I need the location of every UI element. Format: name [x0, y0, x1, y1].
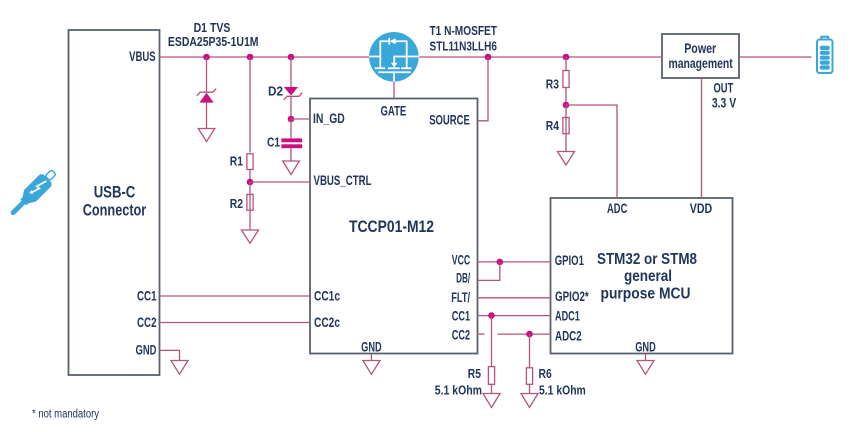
- wire R2 to ground: [249, 182, 251, 230]
- svg-text:CC2c: CC2c: [314, 314, 340, 330]
- resistor R1: [247, 154, 253, 170]
- wire VBUS to D2: [290, 57, 292, 87]
- USB-C plug icon: [7, 166, 59, 218]
- transistor T1 N-MOSFET: [369, 32, 419, 82]
- Power management box: [662, 34, 739, 78]
- wire D2 to node: [290, 96, 292, 119]
- ground below C1: [283, 161, 300, 175]
- svg-text:T1 N-MOSFET: T1 N-MOSFET: [430, 23, 498, 38]
- svg-text:FLT/: FLT/: [451, 289, 470, 305]
- battery icon: [817, 37, 833, 73]
- wire VBUS from MOSFET to Power management: [419, 56, 662, 58]
- node CC2-R6 junction: [526, 331, 533, 338]
- svg-text:GND: GND: [136, 341, 157, 357]
- ground below R2: [242, 230, 259, 243]
- wire R1 to node: [249, 169, 251, 182]
- svg-text:TCCP01-M12: TCCP01-M12: [349, 217, 434, 236]
- svg-text:GPIO2*: GPIO2*: [555, 288, 589, 304]
- svg-text:CC1c: CC1c: [314, 287, 340, 303]
- wire VCC to GPIO1: [478, 261, 551, 263]
- svg-text:R1: R1: [230, 154, 243, 169]
- wire node to VBUS_CTRL pin: [250, 181, 310, 183]
- wire CC1 to ADC1: [478, 315, 551, 317]
- wire node to IN_GD pin: [291, 118, 310, 120]
- wire FLT to GPIO2: [478, 297, 551, 299]
- USB-C connector box: [69, 30, 160, 375]
- wire CC2 to CC2c: [160, 322, 311, 324]
- svg-text:ADC2: ADC2: [555, 327, 582, 343]
- svg-text:STL11N3LLH6: STL11N3LLH6: [430, 38, 498, 53]
- svg-text:CC1: CC1: [137, 287, 157, 303]
- wire VBUS to R3: [565, 57, 567, 71]
- ground below R5: [483, 394, 500, 408]
- svg-text:general: general: [624, 268, 672, 285]
- svg-text:OUT: OUT: [714, 81, 734, 96]
- ground at TCCP01 GND: [363, 361, 380, 375]
- svg-text:GND: GND: [361, 339, 382, 355]
- svg-text:5.1 kOhm: 5.1 kOhm: [435, 383, 482, 398]
- svg-text:SOURCE: SOURCE: [429, 111, 470, 127]
- ground below R4: [558, 152, 575, 166]
- svg-text:D2: D2: [268, 83, 283, 98]
- wire node to ADC pin: [566, 105, 617, 198]
- wire MCU GND stub: [645, 354, 647, 361]
- STM32 MCU box U2: [551, 198, 733, 354]
- wire Power management to battery: [739, 56, 812, 58]
- node CC1-R5 junction: [488, 312, 495, 319]
- wire CC2 to ADC2 segment2: [498, 333, 551, 335]
- svg-text:C1: C1: [267, 135, 280, 150]
- wire R5 to ground: [491, 384, 493, 393]
- svg-text:USB-C: USB-C: [94, 184, 136, 202]
- wire DB elbow: [478, 262, 500, 281]
- diode D1 TVS: [197, 57, 216, 128]
- node VBUS-R1 junction: [247, 54, 254, 61]
- wire node to C1: [290, 119, 292, 138]
- wire C1 to ground: [290, 148, 292, 160]
- node R3-R4-ADC: [563, 102, 570, 109]
- svg-text:R4: R4: [546, 118, 560, 133]
- wire gate to TCCP01: [393, 82, 395, 99]
- svg-text:CC2: CC2: [137, 314, 157, 330]
- svg-text:IN_GD: IN_GD: [313, 110, 345, 126]
- resistor R5: [488, 367, 494, 385]
- svg-text:CC2: CC2: [452, 327, 470, 343]
- wire CC1 node to R5: [491, 316, 493, 367]
- wire SOURCE to VBUS: [478, 57, 489, 121]
- svg-text:Power: Power: [684, 40, 716, 56]
- ground below R6: [521, 394, 538, 408]
- wire CC2 node to R6: [529, 334, 531, 368]
- ground at MCU GND: [637, 361, 654, 375]
- node VBUS-R3 junction: [563, 54, 570, 61]
- wire TCCP01 GND stub: [370, 354, 372, 361]
- resistor R2: [247, 194, 253, 210]
- wire CC2 to ADC2 segment1: [478, 333, 485, 335]
- diode D2 zener: [284, 87, 303, 100]
- svg-text:management: management: [668, 55, 733, 71]
- svg-text:5.1 kOhm: 5.1 kOhm: [539, 383, 586, 398]
- wire R6 to ground: [529, 384, 531, 393]
- svg-text:ADC1: ADC1: [555, 308, 580, 324]
- svg-text:VBUS_CTRL: VBUS_CTRL: [314, 172, 372, 188]
- svg-text:R5: R5: [468, 366, 481, 381]
- wire VBUS to R1: [249, 57, 251, 153]
- svg-text:DB/: DB/: [456, 270, 470, 286]
- wire VDD from Power management to MCU: [701, 78, 703, 198]
- svg-text:GPIO1: GPIO1: [555, 252, 584, 268]
- svg-text:* not mandatory: * not mandatory: [32, 409, 99, 421]
- svg-text:VBUS: VBUS: [129, 48, 156, 64]
- svg-text:ADC: ADC: [607, 200, 627, 216]
- svg-text:R6: R6: [539, 366, 552, 381]
- node R1-R2-VBUS_CTRL: [247, 179, 254, 186]
- TCCP01-M12 box U1: [310, 99, 478, 354]
- svg-text:STM32 or STM8: STM32 or STM8: [597, 251, 697, 268]
- svg-text:Connector: Connector: [83, 201, 147, 219]
- resistor R3: [563, 71, 569, 88]
- node VCC-DB junction: [497, 259, 504, 266]
- ground below D1: [198, 129, 215, 142]
- node VBUS-D1 junction: [203, 54, 210, 61]
- svg-text:R3: R3: [546, 77, 559, 92]
- wire VBUS from connector to MOSFET: [160, 56, 370, 58]
- svg-text:R2: R2: [230, 196, 243, 211]
- node VBUS-D2 junction: [288, 54, 295, 61]
- wire R3 to node: [565, 88, 567, 106]
- capacitor C1: [281, 138, 302, 148]
- wire R4 to ground: [565, 105, 567, 151]
- svg-text:ESDA25P35-1U1M: ESDA25P35-1U1M: [168, 34, 259, 49]
- svg-text:GATE: GATE: [381, 103, 407, 119]
- resistor R4: [563, 118, 569, 134]
- resistor R6: [526, 368, 532, 385]
- svg-text:3.3 V: 3.3 V: [712, 95, 736, 110]
- ground at connector GND: [171, 361, 188, 375]
- node D2-C1-IN_GD: [288, 116, 295, 123]
- svg-text:GND: GND: [635, 339, 656, 355]
- wire CC1 to CC1c: [160, 295, 311, 297]
- wire GND connector to ground: [160, 350, 180, 360]
- svg-text:VCC: VCC: [452, 251, 470, 267]
- svg-text:CC1: CC1: [452, 308, 470, 324]
- svg-text:VDD: VDD: [690, 200, 712, 216]
- node VBUS-SOURCE junction: [485, 54, 492, 61]
- svg-text:purpose MCU: purpose MCU: [601, 286, 691, 303]
